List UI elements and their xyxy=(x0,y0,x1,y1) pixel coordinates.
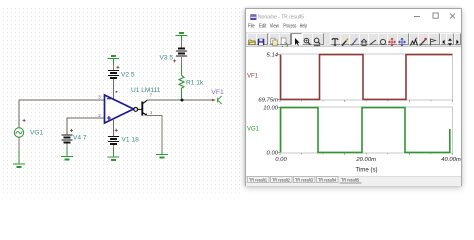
svg-text:V1 18: V1 18 xyxy=(122,137,140,144)
svg-text:5.14: 5.14 xyxy=(267,53,279,59)
svg-text:TR result4: TR result4 xyxy=(318,177,336,182)
minus input mark xyxy=(107,98,111,100)
svg-text:VG1: VG1 xyxy=(30,130,44,137)
transistor emitter arrow xyxy=(144,113,147,115)
wire U1 V- to V1 xyxy=(112,119,114,136)
plus input mark xyxy=(107,116,111,120)
svg-text:VG1: VG1 xyxy=(247,127,260,133)
svg-text:69.75m: 69.75m xyxy=(258,98,278,104)
svg-text:View: View xyxy=(270,24,279,30)
op-amp U1 LM111 triangle xyxy=(105,95,134,123)
ground below VG1 xyxy=(13,164,25,167)
plot frame VG1 xyxy=(280,107,453,153)
svg-text:Help: Help xyxy=(300,24,307,30)
battery V1 xyxy=(108,129,119,157)
ground below V1 xyxy=(108,157,120,160)
output wire collector to VF1 xyxy=(147,99,215,101)
ground below V4 xyxy=(61,157,73,160)
wire emitter to ground xyxy=(147,115,162,150)
ground below transistor emitter xyxy=(156,154,168,157)
U1 output transistor xyxy=(138,100,148,115)
voltage generator VG1 xyxy=(14,119,25,163)
svg-text:10.00: 10.00 xyxy=(263,106,278,112)
U1 output circle xyxy=(134,108,138,112)
VF1 trace xyxy=(281,55,453,100)
ground above V2 (inverted) xyxy=(108,56,120,65)
svg-text:40.00m: 40.00m xyxy=(441,157,461,163)
battery V2 xyxy=(108,65,120,99)
svg-text:V3 5: V3 5 xyxy=(160,55,174,62)
axis ticks bottom plot xyxy=(278,108,453,156)
svg-text:R1 1k: R1 1k xyxy=(186,80,204,87)
svg-text:0.00: 0.00 xyxy=(275,157,287,163)
svg-text:VF1: VF1 xyxy=(211,89,224,96)
svg-text:20.00m: 20.00m xyxy=(355,157,376,163)
VF1 output pin symbol xyxy=(217,96,221,104)
svg-text:TR result5: TR result5 xyxy=(341,177,359,182)
y labels xyxy=(258,53,278,157)
x labels xyxy=(275,157,461,163)
svg-text:Noname - TR result5: Noname - TR result5 xyxy=(258,15,304,21)
svg-text:Process: Process xyxy=(283,24,296,30)
svg-text:Time (s): Time (s) xyxy=(355,167,377,174)
resistor R1 xyxy=(179,65,184,99)
svg-text:VF1: VF1 xyxy=(247,74,259,80)
node junction at R1 xyxy=(181,99,184,102)
svg-text:0.00: 0.00 xyxy=(267,151,279,157)
ground above V3 (inverted) xyxy=(176,33,188,42)
svg-text:U1 LM111: U1 LM111 xyxy=(131,87,161,94)
svg-text:TR result1: TR result1 xyxy=(249,177,267,182)
battery V4 xyxy=(62,129,74,156)
svg-text:File: File xyxy=(248,24,255,30)
axis ticks top plot xyxy=(278,55,453,103)
wire from VG1 to U1 pin 3 xyxy=(19,100,105,128)
wire from V4 to U1 pin 2 xyxy=(67,118,105,135)
pin 8 mark xyxy=(116,91,118,93)
battery V3 xyxy=(173,42,187,65)
svg-text:V2 5: V2 5 xyxy=(121,72,135,79)
svg-text:Edit: Edit xyxy=(259,24,267,30)
VF1 output pin arrowhead xyxy=(212,99,216,102)
plot frame VF1 xyxy=(280,54,453,100)
svg-text:TR result3: TR result3 xyxy=(295,177,313,182)
svg-text:TR result2: TR result2 xyxy=(272,177,290,182)
VG1 trace xyxy=(281,108,450,153)
svg-text:V4 7: V4 7 xyxy=(73,135,87,142)
